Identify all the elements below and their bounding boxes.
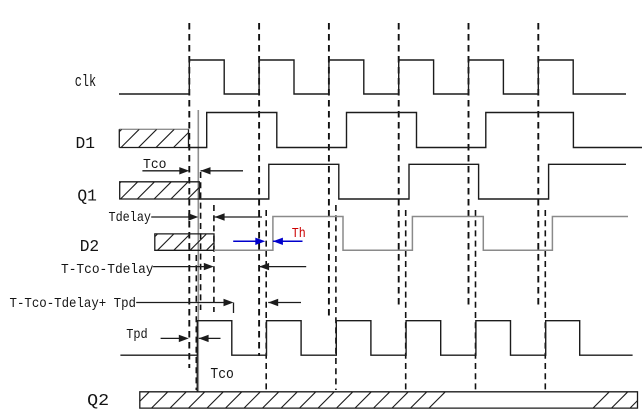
node delayed-edge dashed marker at E6 — [544, 210, 546, 390]
svg-text:Q2: Q2 — [87, 392, 109, 411]
wire Th blue left-pointing arrow — [273, 240, 303, 242]
wire Th blue right-pointing arrow — [233, 240, 257, 242]
svg-text:Th: Th — [292, 226, 306, 242]
box D2 uncertainty region (hatched) — [141, 234, 223, 250]
wire Tdelay right-pointing arrow — [151, 216, 190, 218]
node E1 clock-edge dashed line 1 — [188, 23, 190, 368]
wire Tpd right-pointing arrow — [161, 337, 181, 339]
node D2-valid dashed marker — [213, 205, 215, 312]
node E3 clock-edge dashed line 3 — [328, 23, 330, 319]
wire Tco left-pointing arrow — [201, 170, 244, 172]
node delayed-edge dashed marker at E1 — [195, 255, 197, 390]
svg-text:D2: D2 — [80, 238, 100, 257]
wire Tdelay left-pointing arrow — [215, 216, 262, 218]
node gray reference line (Q1 transition time) — [197, 110, 199, 392]
node Q1-edge dashed marker — [200, 172, 202, 310]
svg-text:Q1: Q1 — [77, 188, 97, 207]
node E6 clock-edge dashed line 6 — [537, 23, 539, 305]
box D1 uncertainty region (hatched) — [104, 129, 210, 147]
wire T-Tco-Tdelay left-pointing arrow — [259, 266, 306, 268]
wire T-Tco-Tdelay+Tpd left-pointing arrow — [268, 302, 301, 304]
wire D2 waveform (gray) — [214, 217, 628, 251]
wire clk waveform — [119, 60, 626, 94]
svg-text:T-Tco-Tdelay: T-Tco-Tdelay — [61, 262, 154, 278]
wire delayed clock waveform — [120, 321, 632, 356]
wire Tpd left-pointing arrow — [199, 337, 221, 339]
node delayed-edge dashed marker at E2 — [265, 210, 267, 390]
wire D1 waveform — [189, 113, 643, 148]
svg-text:T-Tco-Tdelay+ Tpd: T-Tco-Tdelay+ Tpd — [10, 296, 137, 312]
node delayed-edge dashed marker at E3 — [335, 205, 337, 390]
node delayed-edge dashed marker at E4 — [405, 210, 407, 390]
wire T-Tco-Tdelay right-pointing arrow — [153, 266, 205, 268]
node E5 clock-edge dashed line 5 — [468, 23, 470, 305]
wire Tco right-pointing arrow — [142, 170, 181, 172]
node delayed-edge dashed marker at E5 — [475, 210, 477, 390]
svg-text:Tco: Tco — [210, 367, 234, 383]
wire T-Tco-Tdelay+Tpd right-pointing arrow — [136, 302, 225, 304]
wire Q1 waveform — [199, 164, 626, 199]
box Q2 uncertainty region (long, partially hatched) — [133, 392, 644, 408]
node E4 clock-edge dashed line 4 — [398, 23, 400, 305]
wire solid extension of delayed clock edge down to Q2 box — [196, 355, 198, 392]
svg-text:D1: D1 — [76, 135, 96, 154]
svg-text:Tpd: Tpd — [126, 327, 148, 343]
svg-text:Tdelay: Tdelay — [109, 210, 152, 226]
box Q1 uncertainty region (hatched) — [104, 182, 222, 199]
wire tick below arrow tip — [233, 303, 235, 314]
svg-text:clk: clk — [75, 73, 97, 92]
node E2 clock-edge dashed line 2 — [258, 23, 260, 356]
